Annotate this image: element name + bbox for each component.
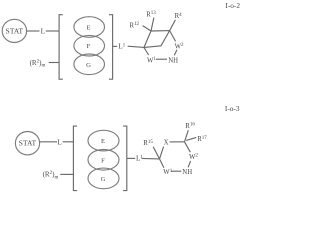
- svg-text:(R2)m: (R2)m: [30, 59, 46, 69]
- svg-text:NH: NH: [182, 169, 192, 176]
- svg-text:R17: R17: [197, 136, 207, 143]
- svg-text:R13: R13: [146, 11, 156, 18]
- svg-text:L: L: [41, 28, 45, 36]
- svg-text:STAT: STAT: [6, 26, 24, 35]
- svg-text:R4: R4: [175, 13, 183, 20]
- svg-text:L1: L1: [118, 43, 125, 51]
- svg-text:F: F: [101, 157, 105, 164]
- svg-text:X: X: [164, 139, 169, 146]
- svg-text:F: F: [87, 43, 91, 50]
- svg-text:E: E: [101, 138, 105, 145]
- svg-text:G: G: [86, 62, 91, 69]
- svg-text:R16: R16: [185, 123, 195, 130]
- svg-text:(R2)m: (R2)m: [43, 171, 59, 181]
- svg-text:W2: W2: [175, 43, 184, 50]
- svg-text:W1: W1: [147, 57, 156, 64]
- svg-text:NH: NH: [168, 57, 178, 64]
- svg-text:I-o-3: I-o-3: [225, 104, 240, 113]
- svg-text:G: G: [101, 176, 106, 183]
- svg-text:E: E: [86, 25, 90, 32]
- svg-text:R15: R15: [143, 140, 153, 147]
- svg-text:R12: R12: [130, 22, 140, 29]
- svg-text:W2: W2: [189, 154, 198, 161]
- svg-text:I-o-2: I-o-2: [225, 1, 240, 10]
- svg-text:STAT: STAT: [19, 139, 37, 148]
- svg-text:L: L: [57, 138, 61, 146]
- svg-text:W1: W1: [163, 169, 172, 176]
